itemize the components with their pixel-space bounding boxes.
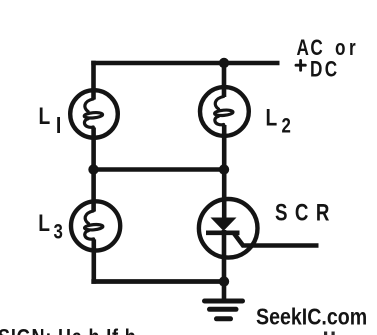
label L2: [266, 103, 278, 131]
node: bottom junction dot: [219, 276, 229, 286]
node: middle-right junction dot: [219, 164, 229, 174]
wire: bottom horizontal return: [91, 279, 224, 284]
wire: left vertical branch lower segment (L3 to bottom corner): [92, 239, 97, 283]
label AC or (line 1): [297, 36, 325, 61]
label L3: [38, 209, 50, 237]
label L2 subscript 2: [282, 115, 291, 138]
label SCR: [275, 199, 337, 226]
label L1: [39, 102, 52, 130]
lamp L2 circle: [200, 87, 249, 136]
SCR anode triangle: [211, 218, 237, 232]
lamp L3 circle: [71, 201, 120, 250]
svg-text:3: 3: [54, 221, 63, 244]
caption fragment (cut off at bottom edge): [0, 326, 137, 335]
svg-text:DC: DC: [310, 58, 339, 83]
wire: top horizontal bus: [91, 61, 279, 66]
ground symbol bar 1: [205, 299, 243, 304]
node: middle-left junction dot: [88, 164, 98, 174]
caption fragment right (cut off): [324, 332, 327, 335]
svg-text:L: L: [39, 102, 52, 130]
lamp L1 filament: [84, 99, 103, 127]
svg-text:L: L: [266, 103, 278, 131]
label + DC (line 2): [296, 60, 305, 70]
lamp L1 circle: [70, 90, 118, 138]
SCR gate lead: [234, 233, 319, 246]
svg-text:SIGN: Ha b If b: SIGN: Ha b If b: [0, 326, 137, 335]
svg-text:SeekIC.com: SeekIC.com: [256, 303, 367, 330]
wire: right vertical branch lower segment (SCR cathode to ground): [222, 230, 227, 300]
label L1 subscript 1: [57, 117, 60, 133]
SCR cathode bar: [206, 231, 240, 236]
lamp L3 filament: [84, 211, 103, 239]
watermark SeekIC.com: [256, 303, 367, 330]
svg-text:2: 2: [282, 115, 291, 138]
ground symbol bar 2: [210, 307, 237, 312]
wire: right vertical branch middle segment (L2 through middle node to SCR anode): [222, 125, 227, 220]
node: top junction dot: [219, 58, 229, 68]
wire: left vertical branch upper segment (top corner to L1 filament): [91, 61, 96, 100]
svg-text:SCR: SCR: [275, 199, 337, 226]
SCR circle: [199, 199, 258, 258]
wire: right vertical branch upper segment (top junction to L2 filament): [222, 63, 227, 97]
wire: left vertical branch middle segment (L1 to L3): [91, 128, 96, 212]
lamp L2 filament: [214, 97, 233, 125]
wire: middle horizontal tie: [94, 167, 225, 172]
svg-text:L: L: [38, 209, 50, 237]
label L3 subscript 3: [54, 221, 63, 244]
ground symbol bar 3: [217, 316, 231, 321]
